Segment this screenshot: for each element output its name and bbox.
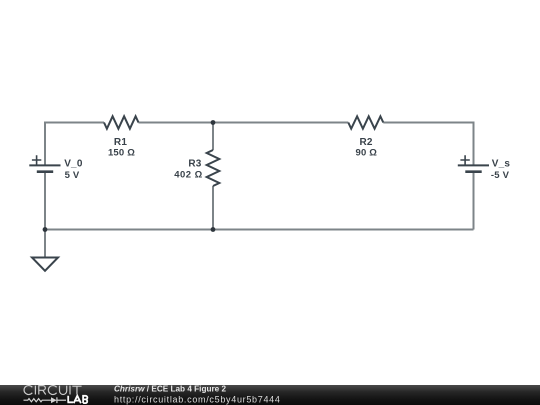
svg-text:Chrisrw / ECE Lab 4 Figure 2: Chrisrw / ECE Lab 4 Figure 2 bbox=[114, 383, 226, 393]
svg-text:http://circuitlab.com/c5by4ur5: http://circuitlab.com/c5by4ur5b7444 bbox=[114, 395, 281, 405]
